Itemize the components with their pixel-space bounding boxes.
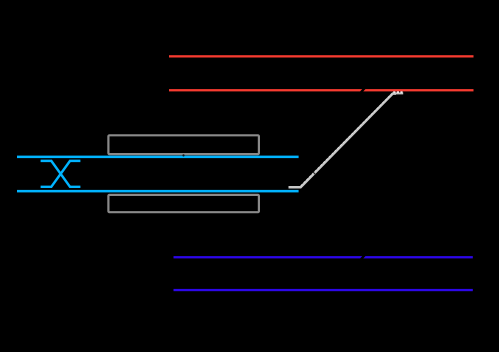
route R1 top stub bbox=[394, 92, 403, 94]
track line T4 (cyan, lower platform line) bbox=[17, 190, 299, 193]
track line T6 (dark blue, bottom) bbox=[174, 289, 473, 291]
connecting route R1 (light grey diagonal) bbox=[289, 94, 397, 188]
joint dot D1 on T3 bbox=[182, 154, 184, 156]
track line T1 (red, upper right) bbox=[169, 55, 474, 57]
track line T3 (cyan, upper platform line) bbox=[17, 156, 299, 159]
platform P2 (lower grey rectangle) bbox=[108, 195, 259, 212]
points gap J3 on T5 bbox=[359, 255, 366, 259]
route R1 speckle overlay on diagonal bbox=[301, 94, 392, 186]
platform P1 (upper grey rectangle) bbox=[108, 135, 259, 154]
points gap J1 on T2 bbox=[359, 88, 366, 92]
crossover X1 second leg bbox=[41, 161, 81, 187]
track line T5 (dark blue, with points gap) bbox=[174, 256, 473, 258]
joint notch J2 on route R1 bbox=[313, 172, 316, 175]
route R1 white dashes at top stub bbox=[393, 91, 402, 93]
track line T2 (red, with points gap) bbox=[169, 89, 474, 91]
crossover X1 (cyan scissors) bbox=[41, 161, 81, 187]
